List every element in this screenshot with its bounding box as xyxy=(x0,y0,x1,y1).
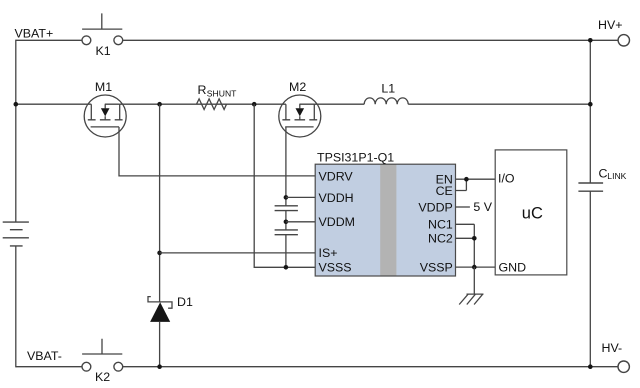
wire left vertical lower xyxy=(15,246,17,367)
node junction top rail at x590 xyxy=(588,38,593,43)
svg-text:VBAT+: VBAT+ xyxy=(15,26,54,40)
wire M2 gate down to VDDH node xyxy=(285,127,287,197)
switch K2 xyxy=(82,339,123,384)
node junction rail2 at x254 xyxy=(252,102,257,107)
wire M1 gate to VDRV xyxy=(119,127,315,176)
pin VDRV xyxy=(319,169,354,183)
pin VDDH xyxy=(319,191,354,205)
svg-text:M2: M2 xyxy=(289,80,306,94)
wire rail2 left segment xyxy=(16,103,92,105)
node junction EN-CE xyxy=(464,177,469,182)
capacitor CLINK xyxy=(578,167,626,192)
wire CE tie to EN xyxy=(456,179,467,190)
wire D1 anode to bottom rail xyxy=(159,322,161,367)
resistor RSHUNT xyxy=(197,83,238,109)
svg-text:HV+: HV+ xyxy=(598,18,622,32)
svg-text:L1: L1 xyxy=(381,81,395,95)
wire VDDM stub xyxy=(286,221,315,223)
node junction VSSS xyxy=(284,265,289,270)
wire top rail right segment xyxy=(123,39,618,41)
node junction rail2 at x160 xyxy=(157,102,162,107)
pin CE xyxy=(436,184,453,198)
pin EN xyxy=(436,173,453,187)
svg-text:VDDH: VDDH xyxy=(319,191,354,205)
node junction bottom rail at x160 xyxy=(157,364,162,369)
node junction rail2 at x590 xyxy=(588,102,593,107)
pin IS+ xyxy=(319,246,338,260)
op-amp U2 uC box xyxy=(495,150,567,275)
svg-text:M1: M1 xyxy=(95,80,112,94)
svg-text:VSSS: VSSS xyxy=(319,261,352,275)
pin GND xyxy=(499,260,527,274)
inductor L1 xyxy=(364,81,408,104)
node VBAT+ label xyxy=(15,26,54,40)
wire left vertical upper xyxy=(15,40,17,222)
node junction left rail2 xyxy=(14,102,19,107)
svg-text:TPSI31P1-Q1: TPSI31P1-Q1 xyxy=(317,151,394,165)
svg-text:NC1: NC1 xyxy=(428,218,453,232)
node junction VSSP xyxy=(472,265,477,270)
wire VDDP stub xyxy=(456,206,470,208)
wire bottom rail right segment xyxy=(123,366,618,368)
wire IS+ to IC xyxy=(160,252,316,254)
svg-text:K2: K2 xyxy=(95,370,110,384)
pin I/O xyxy=(498,172,515,186)
svg-text:VDDM: VDDM xyxy=(319,215,355,229)
node junction VDDH xyxy=(284,195,289,200)
transistor M1 xyxy=(84,80,126,137)
svg-text:D1: D1 xyxy=(177,295,193,309)
svg-text:CE: CE xyxy=(436,184,453,198)
svg-text:VSSP: VSSP xyxy=(420,260,453,274)
svg-text:uC: uC xyxy=(522,205,543,223)
node VBAT- label xyxy=(27,349,62,363)
node junction IS+ branch xyxy=(157,251,162,256)
node 5V label xyxy=(473,200,492,214)
pin VSSS xyxy=(319,261,352,275)
svg-text:NC2: NC2 xyxy=(428,232,453,246)
svg-text:VBAT-: VBAT- xyxy=(27,349,62,363)
capacitor C2 VDDM-VSSS xyxy=(275,230,298,267)
svg-text:VDRV: VDRV xyxy=(319,169,354,183)
terminal HV+ xyxy=(598,18,630,46)
wire VSSP to uC GND xyxy=(456,266,496,268)
wire top rail left segment xyxy=(16,39,82,41)
svg-text:R: R xyxy=(198,83,207,97)
pin NC2 xyxy=(428,232,453,246)
wire Clink vertical upper xyxy=(589,40,591,183)
wire rail2 M1 to M2 xyxy=(120,103,286,105)
battery B1 xyxy=(3,222,29,246)
ground xyxy=(459,294,483,304)
pin VDDM xyxy=(319,215,355,229)
wire rail2 M2 to L1 xyxy=(314,103,364,105)
wire bottom rail left segment xyxy=(16,366,82,368)
wire VSSP to ground xyxy=(473,267,475,294)
node junction VDDM xyxy=(284,220,289,225)
svg-text:SHUNT: SHUNT xyxy=(207,88,237,98)
capacitor C1 VDDH-VDDM xyxy=(275,197,298,230)
svg-text:K1: K1 xyxy=(96,44,111,58)
wire D1 branch vertical upper xyxy=(159,104,161,302)
wire VSSS branch from rail2 xyxy=(254,104,315,267)
wire NC1 stub and drop xyxy=(456,224,475,267)
svg-text:LINK: LINK xyxy=(607,171,626,181)
terminal HV- xyxy=(602,341,630,372)
wire EN to uC I/O xyxy=(456,178,496,180)
transistor M2 xyxy=(279,80,321,137)
diode D1 xyxy=(148,295,193,322)
node junction NC2 xyxy=(472,236,477,241)
svg-text:I/O: I/O xyxy=(498,172,515,186)
node junction bottom rail at x590 xyxy=(588,364,593,369)
svg-text:C: C xyxy=(599,167,608,181)
switch K1 xyxy=(82,13,123,58)
pin NC1 xyxy=(428,218,453,232)
svg-text:GND: GND xyxy=(499,260,527,274)
wire VDDH stub xyxy=(286,196,315,198)
op-amp U1 TPSI31P1-Q1 body xyxy=(315,151,455,277)
wire NC2 stub xyxy=(456,237,475,239)
wire Clink vertical lower xyxy=(589,191,591,367)
svg-text:VDDP: VDDP xyxy=(418,200,452,214)
svg-text:HV-: HV- xyxy=(602,341,623,355)
svg-text:IS+: IS+ xyxy=(319,246,338,260)
pin VSSP xyxy=(420,260,453,274)
pin VDDP xyxy=(418,200,452,214)
svg-text:5 V: 5 V xyxy=(473,200,492,214)
wire rail2 L1 to Clink xyxy=(408,103,590,105)
